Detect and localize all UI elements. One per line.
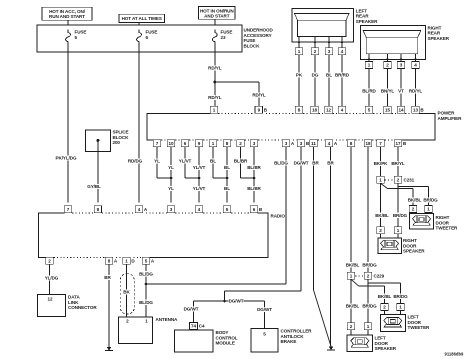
svg-text:C4: C4 (199, 324, 205, 329)
data link connector (38, 294, 66, 316)
power source label: HOT IN ON/RUN AND START (199, 7, 235, 20)
svg-text:AMPLIFIER: AMPLIFIER (438, 116, 463, 121)
svg-text:YL/VT: YL/VT (193, 186, 206, 191)
wire BR radio pin 8 A to ground (108, 264, 110, 347)
svg-text:RADIO: RADIO (271, 214, 286, 219)
left rear speaker pin 3 (328, 42, 330, 48)
left door tweeter pin 1 (397, 304, 404, 311)
wire BR/RD left rear speaker to amp pin 4 (341, 55, 343, 107)
radio bottom pin 2 (46, 257, 53, 264)
connector dotted line amp bottom (245, 139, 250, 141)
svg-text:LINK: LINK (68, 300, 79, 305)
connector C231 pin 2 (394, 176, 401, 183)
wire DG/WT to body control module pin 74 (193, 301, 195, 323)
left rear speaker pin 1 (298, 42, 300, 48)
svg-text:DOOR: DOOR (436, 220, 450, 225)
power amplifier bottom pin 10 (167, 140, 174, 147)
wire BK/BL C229 pin 1 to left door speaker pin 2 (350, 279, 352, 323)
svg-text:RD/YL: RD/YL (208, 95, 222, 100)
svg-text:13: 13 (413, 108, 418, 113)
svg-text:ANTILOCK: ANTILOCK (281, 334, 305, 339)
radio top pin 8 (94, 206, 101, 213)
svg-text:DG/WT: DG/WT (294, 161, 309, 166)
node junction (253, 177, 256, 180)
wire BK/BL amp pin 8 to C229 pin 1 (350, 147, 352, 272)
svg-text:BR/DG: BR/DG (393, 213, 408, 218)
svg-text:HOT AT ALL TIMES: HOT AT ALL TIMES (122, 16, 162, 21)
svg-text:200: 200 (113, 140, 121, 145)
svg-text:BR/DG: BR/DG (393, 294, 408, 299)
power amplifier top pin 14 (397, 106, 404, 113)
svg-text:BK: BK (123, 290, 130, 295)
left rear speaker pin 2 (314, 42, 316, 48)
svg-text:BR: BR (327, 161, 334, 166)
connector dotted line amp bottom (217, 139, 223, 141)
svg-text:DATA: DATA (68, 295, 80, 300)
svg-text:BL/RD: BL/RD (362, 89, 376, 94)
connector dotted line radio top (231, 212, 250, 214)
svg-text:UNDERHOOD: UNDERHOOD (244, 28, 274, 33)
svg-text:15: 15 (385, 108, 390, 113)
svg-text:BL: BL (224, 186, 230, 191)
wire from HOT IN ON/RUN label to fuse 23 (214, 19, 216, 30)
wire GY/BL splice block to radio pin 8 (97, 140, 99, 151)
node junction (198, 177, 201, 180)
underhood accessory fuse block (37, 25, 242, 52)
connector dotted line amp top (333, 112, 338, 114)
svg-text:BR/YL: BR/YL (391, 161, 405, 166)
connector dotted line radio top (203, 212, 223, 214)
svg-text:BL/BR: BL/BR (247, 186, 261, 191)
wire BL from amp pin pair 213 (212, 147, 214, 178)
svg-text:SPEAKER: SPEAKER (403, 249, 425, 254)
connector dotted line amp bottom (372, 139, 376, 141)
right rear speaker pin 1 (368, 59, 370, 61)
svg-text:RD/YL: RD/YL (252, 93, 266, 98)
connector dotted line amp top (392, 112, 397, 114)
power amplifier top pin 12 (325, 106, 332, 113)
svg-text:SPEAKER: SPEAKER (375, 346, 397, 351)
svg-text:DG/WT: DG/WT (184, 307, 199, 312)
svg-text:CONTROLLER: CONTROLLER (281, 329, 313, 334)
power amplifier bottom pin 3 B (297, 140, 304, 147)
svg-text:SPEAKER: SPEAKER (428, 36, 450, 41)
svg-text:YL: YL (168, 165, 174, 170)
wire RD/DG fuse 6 to radio pin 4 A (138, 46, 140, 203)
node junction (170, 177, 173, 180)
connector dotted line radio top (175, 212, 195, 214)
connector dotted line amp bottom (161, 139, 167, 141)
fuse 6 (137, 30, 142, 46)
power amplifier bottom pin 3 A (282, 140, 289, 147)
svg-text:BR/DG: BR/DG (362, 263, 377, 268)
svg-text:91186db9: 91186db9 (445, 352, 465, 357)
svg-text:RD/YL: RD/YL (409, 89, 423, 94)
connector dotted line radio top (102, 212, 135, 214)
wire BR/DG C231 pin 2 to right door speaker pin 1 (397, 183, 399, 227)
wire BR from amp pin 4 A to ground (330, 147, 332, 345)
svg-text:BL/DG: BL/DG (274, 161, 288, 166)
power amplifier top pin 13 B (412, 106, 419, 113)
radio top pin 5 (223, 206, 230, 213)
wire DG/WT horizontal to BCM and CAB (194, 300, 265, 302)
connector dotted line amp top (319, 112, 325, 114)
right door speaker pin 2 (377, 227, 384, 234)
svg-text:11: 11 (311, 141, 316, 146)
svg-text:RD/YL: RD/YL (208, 66, 222, 71)
left door tweeter (384, 311, 386, 315)
wire BR/DG branch to right door tweeter pin 1 (397, 183, 399, 186)
connector C229 pin 2 (364, 272, 371, 279)
radio top pin 6 B (250, 206, 257, 213)
power amplifier top pin 18 (311, 106, 318, 113)
connector dotted line amp top (373, 112, 383, 114)
power amplifier bottom pin 2 (237, 140, 244, 147)
svg-text:RIGHT: RIGHT (403, 238, 417, 243)
left door speaker pin 2 (347, 323, 354, 330)
connector dotted line amp top (346, 112, 365, 114)
svg-text:BK/BL: BK/BL (408, 198, 422, 203)
svg-text:BR/DG: BR/DG (362, 304, 377, 309)
svg-text:12: 12 (48, 297, 53, 302)
body control module (174, 330, 213, 352)
connector dotted line C231 (385, 179, 394, 181)
svg-text:PK: PK (296, 73, 303, 78)
right door tweeter pin 2 (409, 205, 416, 212)
svg-text:FUSE: FUSE (244, 38, 256, 43)
svg-text:BL/DG: BL/DG (139, 300, 153, 305)
wire YL from amp pin pair 157 (156, 147, 158, 178)
svg-text:TWEETER: TWEETER (436, 226, 459, 231)
svg-text:PK/YL/DG: PK/YL/DG (56, 156, 77, 161)
svg-text:12: 12 (326, 108, 331, 113)
connector dotted line amp bottom (258, 139, 282, 141)
connector dotted line amp bottom (203, 139, 209, 141)
svg-text:DG/WT: DG/WT (229, 299, 244, 304)
right rear speaker (361, 25, 426, 59)
svg-text:BL: BL (224, 165, 230, 170)
wire BL/DG radio pin 5 A to antenna pin 1 (145, 264, 147, 317)
svg-text:DG: DG (312, 73, 319, 78)
radio top pin 4 (195, 206, 202, 213)
power source label: HOT AT ALL TIMES (119, 14, 165, 22)
wire BL/BR to radio (253, 147, 255, 203)
connector dotted line radio bottom (54, 256, 105, 258)
wire BR/DG amp pin 18 to C229 pin 2 (367, 147, 369, 272)
left rear speaker pin 4 (341, 42, 343, 48)
power amplifier bottom pin 18 (364, 140, 371, 147)
svg-text:FUSE: FUSE (75, 30, 87, 35)
connector dotted line amp top (405, 112, 411, 114)
coax shield around antenna lead (120, 274, 134, 314)
svg-text:RUN AND START: RUN AND START (49, 14, 85, 19)
wire from HOT IN ACC label to fuse 5 (67, 20, 69, 30)
right door tweeter pin 1 (425, 205, 432, 212)
svg-text:14: 14 (399, 108, 404, 113)
radio top pin 4 A (135, 206, 142, 213)
connector dotted line C229 (355, 275, 364, 277)
svg-text:BR: BR (312, 161, 319, 166)
svg-text:YL/VT: YL/VT (193, 165, 206, 170)
splice block 200 (85, 130, 110, 152)
connector dotted line amp bottom (355, 139, 364, 141)
wire BL to radio (226, 147, 228, 203)
power amplifier top pin 8 (295, 106, 302, 113)
wire RD/YL right rear speaker to amp pin 13 (415, 68, 417, 106)
radio bottom pin 8 A (105, 257, 112, 264)
svg-text:LEFT: LEFT (408, 315, 419, 320)
power amplifier top pin 5 (365, 106, 372, 113)
svg-text:BN/YL: BN/YL (381, 89, 395, 94)
svg-text:BK/BL: BK/BL (346, 304, 360, 309)
node junction (226, 177, 229, 180)
wire YL to radio (170, 147, 172, 203)
wire RD/YL from fuse 23 to amp pin 1 (214, 46, 216, 106)
wire antenna coax BK radio pin 1 D to antenna pin 2 (126, 264, 128, 317)
power amplifier top pin 9 B (255, 106, 262, 113)
svg-text:TWEETER: TWEETER (408, 325, 431, 330)
wire BK/BL C231 pin 1 to right door speaker pin 2 (380, 183, 382, 227)
power amplifier top pin 15 (384, 106, 391, 113)
node junction on RD/YL wire (213, 81, 216, 84)
svg-text:DOOR: DOOR (375, 341, 389, 346)
svg-text:17: 17 (396, 141, 401, 146)
svg-text:FUSE: FUSE (221, 30, 233, 35)
svg-text:BK/PK: BK/PK (374, 161, 389, 166)
power amplifier U1 (147, 113, 435, 140)
fuse 5 (66, 30, 71, 46)
power amplifier bottom pin 8 (347, 140, 354, 147)
radio top pin 7 (64, 206, 71, 213)
connector dotted line amp top (218, 112, 254, 114)
svg-text:BLOCK: BLOCK (113, 135, 130, 140)
wire RD/YL branch to amp pin 9 (215, 81, 259, 83)
connector dotted line amp bottom (231, 139, 236, 141)
svg-text:18: 18 (312, 108, 317, 113)
svg-text:BR/DG: BR/DG (423, 198, 438, 203)
fuse 23 (212, 30, 217, 46)
wire BL left rear speaker to amp pin 12 (328, 55, 330, 107)
wire from HOT AT ALL TIMES label to fuse 6 (138, 22, 140, 30)
power amplifier bottom pin 11 (310, 140, 317, 147)
node junction DG/WT (223, 300, 226, 303)
svg-text:SPLICE: SPLICE (113, 130, 129, 135)
svg-text:FUSE: FUSE (146, 30, 158, 35)
right rear speaker pin 3 (400, 59, 402, 61)
node splice dot (96, 139, 99, 142)
connector dotted line radio top (72, 212, 94, 214)
connector dotted line amp bottom (189, 139, 195, 141)
svg-text:MODULE: MODULE (216, 341, 235, 346)
svg-text:BK/BL: BK/BL (346, 263, 360, 268)
power amplifier bottom pin 17 B (394, 140, 401, 147)
wire YL/DG radio pin 2 to data link connector (49, 264, 51, 294)
svg-text:CONNECTOR: CONNECTOR (68, 305, 97, 310)
wire BL/BR from amp pin pair 240.5 (240, 147, 242, 178)
svg-text:BL: BL (210, 159, 216, 164)
node junction BL/DG (145, 283, 148, 286)
wire BR/DG branch to left door tweeter pin 1 (367, 279, 369, 283)
power amplifier top pin 4 (338, 106, 345, 113)
power amplifier bottom pin 7 (153, 140, 160, 147)
svg-text:AND START: AND START (204, 13, 230, 18)
svg-text:18: 18 (366, 141, 371, 146)
power amplifier top pin 1 (210, 106, 217, 113)
svg-text:10: 10 (169, 141, 174, 146)
wire PK/YL/DG fuse 5 to radio pin 7 (67, 46, 69, 203)
connector C231 pin 1 (377, 176, 384, 183)
power amplifier bottom pin 1 (209, 140, 216, 147)
power source label: HOT IN ACC ON/RUN AND START (42, 7, 92, 20)
right door speaker (380, 234, 382, 238)
ground G301 (329, 347, 334, 350)
svg-text:BLOCK: BLOCK (244, 43, 261, 48)
power amplifier bottom pin 9 (195, 140, 202, 147)
wire BR from amp pin 11 to ground (313, 147, 315, 290)
power amplifier bottom pin 3 (250, 140, 257, 147)
wire BN/YL right rear speaker to amp pin 15 (387, 68, 389, 106)
wire DG/WT to controller antilock brake pin 5 (264, 301, 266, 328)
svg-text:VT: VT (398, 89, 404, 94)
svg-text:BRAKE: BRAKE (281, 339, 297, 344)
svg-text:C231: C231 (404, 178, 415, 183)
power amplifier bottom pin 8 (223, 140, 230, 147)
connector C229 pin 1 (347, 272, 354, 279)
connector dotted line amp top (303, 112, 310, 114)
radio bottom pin 5 A (142, 257, 149, 264)
right rear speaker pin 4 (415, 59, 417, 61)
connector dotted line amp bottom (318, 139, 325, 141)
svg-text:BL/BR: BL/BR (234, 159, 248, 164)
svg-text:YL: YL (168, 186, 174, 191)
svg-text:BL: BL (326, 73, 332, 78)
power amplifier bottom pin 4 A (325, 140, 332, 147)
svg-text:BL/DG: BL/DG (139, 271, 153, 276)
svg-text:ACCESSORY: ACCESSORY (244, 33, 272, 38)
svg-text:GY/BL: GY/BL (87, 184, 101, 189)
svg-text:YL/DG: YL/DG (45, 276, 59, 281)
svg-text:YL/VT: YL/VT (179, 159, 192, 164)
radio U2 (38, 213, 268, 257)
antenna (118, 317, 152, 344)
left door speaker (350, 330, 352, 335)
left door tweeter pin 2 (381, 304, 388, 311)
right door tweeter (412, 212, 414, 213)
svg-text:C229: C229 (374, 274, 385, 279)
svg-text:RIGHT: RIGHT (436, 215, 450, 220)
svg-text:YL: YL (154, 159, 160, 164)
svg-text:23: 23 (221, 35, 226, 40)
wire BL/RD right rear speaker to amp pin 5 (368, 68, 370, 106)
svg-text:DOOR: DOOR (403, 243, 417, 248)
svg-text:DOOR: DOOR (408, 320, 422, 325)
right door speaker pin 1 (394, 227, 401, 234)
svg-text:DG/WT: DG/WT (257, 307, 272, 312)
radio top pin 3 (167, 206, 174, 213)
svg-text:SPEAKER: SPEAKER (356, 19, 378, 24)
connector dotted line amp bottom (336, 139, 347, 141)
wire PK left rear speaker to amp pin 8 (298, 55, 300, 107)
svg-text:RD/DG: RD/DG (128, 159, 143, 164)
svg-text:BODY: BODY (216, 330, 229, 335)
svg-text:74: 74 (191, 324, 196, 329)
controller antilock brake (251, 328, 278, 352)
wire BL/DG branch from amp pin 3 A (146, 283, 286, 285)
connector dotted line radio bottom (134, 256, 142, 258)
svg-text:ANTENNA: ANTENNA (156, 317, 179, 322)
connector dotted line amp top (266, 112, 295, 114)
wire BK/PK amp pin 7 to C231 pin 1 (380, 147, 382, 177)
wire YL/VT to radio (198, 147, 200, 203)
wire YL/VT from amp pin pair 185 (184, 147, 186, 178)
svg-text:BR/RD: BR/RD (335, 73, 350, 78)
wire BR/YL amp pin 17 to C231 pin 2 (397, 147, 399, 177)
radio bottom pin 1 D (123, 257, 130, 264)
wire BK/BL branch to right door tweeter pin 2 (381, 183, 388, 188)
connector dotted line radio top (146, 212, 167, 214)
power amplifier bottom pin 6 (181, 140, 188, 147)
svg-text:POWER: POWER (438, 111, 456, 116)
svg-text:BL/BR: BL/BR (247, 165, 261, 170)
wire VT right rear speaker to amp pin 14 (400, 68, 402, 106)
left door speaker pin 1 (364, 323, 371, 330)
svg-text:LEFT: LEFT (375, 336, 386, 341)
wire BR/DG C229 pin 2 to left door speaker pin 1 (367, 279, 369, 323)
connector dotted line amp bottom (293, 139, 297, 141)
svg-text:BK/BL: BK/BL (375, 213, 389, 218)
ground G201 (107, 347, 112, 350)
power amplifier bottom pin 7 (377, 140, 384, 147)
svg-text:BR: BR (104, 275, 111, 280)
connector dotted line amp bottom (385, 139, 394, 141)
svg-text:BK/BL: BK/BL (378, 294, 392, 299)
wire DG/WT from amp pin 3 B (300, 147, 302, 291)
wire BK/BL branch to left door tweeter pin 2 (351, 279, 359, 286)
connector dotted line radio bottom (116, 256, 122, 258)
body control module pin 74 C4 (189, 323, 197, 330)
left rear speaker (292, 9, 354, 43)
right rear speaker pin 2 (387, 59, 389, 61)
wire DG left rear speaker to amp pin 18 (314, 55, 316, 107)
svg-text:CONTROL: CONTROL (216, 335, 238, 340)
connector dotted line amp bottom (175, 139, 181, 141)
